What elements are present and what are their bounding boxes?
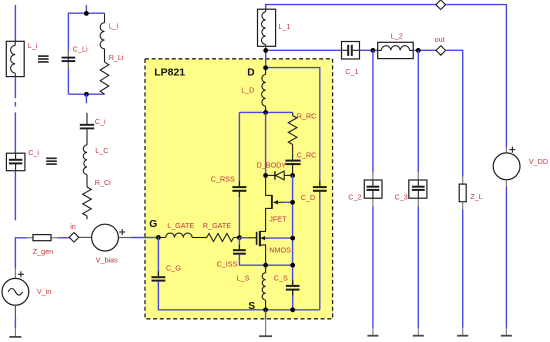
svg-text:L_1: L_1 [279, 22, 291, 31]
port out (diamond) [436, 46, 446, 56]
wire C_2 branch [372, 50, 374, 327]
svg-text:V_bias: V_bias [96, 256, 118, 265]
svg-text:C_3: C_3 [395, 192, 408, 201]
wire below V_DD [505, 187, 507, 328]
capacitor C_G [152, 271, 166, 286]
inductor L_D [262, 68, 266, 113]
wire out to Z_L column [446, 50, 463, 176]
wire C_RSS branch [238, 112, 240, 237]
inductor L_S [262, 265, 265, 310]
node internal drain [263, 110, 268, 115]
svg-text:V_DD: V_DD [529, 157, 548, 166]
node C_3 tap [416, 48, 421, 53]
port in (diamond) [69, 233, 79, 243]
wire top rail [266, 5, 507, 147]
wire C_ISS branch upper [238, 238, 240, 250]
wire stub below L_i equivalent [85, 94, 87, 103]
wire NMOS bulk to gate column [268, 237, 293, 239]
resistor R_Ci [83, 175, 92, 220]
svg-text:C_D: C_D [301, 193, 315, 202]
ground below V_in [14, 328, 16, 337]
svg-text:JFET: JFET [269, 215, 287, 224]
wire input column top [14, 5, 16, 41]
resistor Z_L [459, 184, 466, 202]
svg-text:L_2: L_2 [391, 32, 403, 41]
port on top rail (diamond) [436, 0, 446, 10]
inductor L_C [83, 145, 87, 175]
wire drain middle segment [265, 112, 267, 175]
wire L_2 to port out [413, 49, 436, 51]
capacitor C_2 (boxed) [364, 180, 382, 198]
inductor L_i equivalent [100, 13, 104, 49]
node C_S top [290, 263, 295, 268]
svg-text:D: D [247, 68, 254, 79]
wire V_in to ground [14, 317, 16, 328]
resistor R_Li [100, 49, 109, 94]
node C_2 tap [371, 48, 376, 53]
capacitor C_1 (boxed) [342, 42, 360, 60]
capacitor C_Li [62, 51, 76, 69]
wire output row L_1 to C_1 [266, 49, 342, 51]
node source S [263, 307, 268, 312]
svg-text:R_RC: R_RC [297, 112, 317, 121]
node diode anode side [290, 173, 295, 178]
wire C_G branch lower to source rail [158, 281, 319, 309]
capacitor C_i (boxed equivalent component) [6, 153, 25, 171]
svg-text:in: in [70, 222, 76, 231]
wire NMOS gate lead [248, 237, 256, 239]
svg-text:L_GATE: L_GATE [167, 221, 194, 230]
wire source stub through border [265, 310, 267, 320]
ground below C_3 [417, 328, 419, 336]
wire C_3 leads [417, 172, 419, 207]
svg-text:NMOS: NMOS [269, 245, 291, 254]
ground below C_2 [372, 328, 374, 336]
wire gate column (right vertical) [292, 176, 294, 310]
node bottom of L_i equivalent [84, 92, 89, 97]
svg-text:Z_gen: Z_gen [33, 247, 53, 256]
svg-text:LP821: LP821 [154, 67, 185, 79]
inductor L_i (boxed equivalent component) [6, 41, 24, 76]
capacitor C_i equivalent [80, 113, 94, 145]
svg-text:L_D: L_D [241, 86, 254, 95]
node source internal [263, 263, 268, 268]
svg-text:C_RSS: C_RSS [211, 174, 235, 183]
wire L_i equivalent loop (top, left, bottom sides) [68, 13, 104, 94]
node JFET gate [290, 200, 295, 205]
svg-text:L_i: L_i [28, 41, 38, 50]
svg-text:L_i: L_i [109, 22, 119, 31]
svg-text:R_Ci: R_Ci [95, 178, 111, 187]
wire drain D to C_D branch [266, 68, 320, 186]
inductor L_GATE [158, 233, 192, 237]
wire V_bias to gate node G [118, 237, 131, 239]
inductor L_2 (boxed) [378, 42, 414, 58]
transistor NMOS [257, 220, 268, 264]
svg-text:out: out [435, 35, 445, 44]
wire gate to NMOS gate bar [239, 237, 248, 239]
wire C_D branch lower [319, 192, 321, 310]
capacitor C_3 (boxed) [409, 180, 427, 198]
svg-text:G: G [149, 219, 157, 230]
ground below V_DD [505, 328, 507, 336]
wire port in to V_bias [79, 236, 92, 238]
node diode cathode side [263, 173, 268, 178]
capacitor C_RC [285, 153, 300, 176]
svg-text:C_i: C_i [95, 117, 106, 126]
wire Z_L column lower [462, 210, 464, 328]
capacitor C_D [313, 181, 327, 197]
inductor L_1 (boxed) [258, 9, 276, 46]
equivalence symbol for C_i [46, 158, 57, 164]
node top of L_i equivalent [84, 11, 89, 16]
svg-text:C_RC: C_RC [297, 151, 317, 160]
ground below S [265, 320, 267, 337]
equivalence symbol for L_i [38, 56, 49, 62]
node gate G [156, 235, 161, 240]
svg-text:Z_L: Z_L [470, 192, 482, 201]
wire internal drain row [239, 111, 292, 113]
diode D_BODY [266, 171, 293, 180]
node NMOS bulk tap [290, 236, 295, 241]
node C_S bottom [290, 307, 295, 312]
voltage source V_DD [493, 147, 520, 187]
wire Z_L upper lead [462, 177, 464, 185]
transistor JFET [266, 176, 293, 221]
wire C_2 leads [372, 172, 374, 207]
wire C_G branch upper [157, 238, 159, 277]
capacitor C_S [286, 280, 300, 295]
svg-text:C_Li: C_Li [73, 45, 88, 54]
resistor Z_gen [27, 235, 58, 241]
node gate internal [237, 235, 242, 240]
wire below V_in [14, 305, 16, 317]
ground below Z_L [462, 328, 464, 336]
wire source row left corner [15, 238, 27, 269]
node drain D [263, 65, 268, 70]
wire stub above L_i equivalent [85, 5, 87, 14]
wire input column between L_i and C_i (broken) [14, 77, 16, 154]
svg-text:C_i: C_i [28, 148, 39, 157]
resistor R_RC [288, 112, 297, 152]
wire L_1 to drain D [265, 46, 267, 68]
wire Z_gen to port in [58, 237, 70, 239]
svg-text:C_G: C_G [166, 263, 181, 272]
wire input column below C_i [14, 171, 16, 221]
svg-text:V_in: V_in [37, 287, 51, 296]
svg-text:D_BODY: D_BODY [257, 160, 287, 169]
capacitor C_RSS [232, 181, 246, 197]
svg-text:C_2: C_2 [348, 192, 361, 201]
wire L_GATE to R_GATE [192, 237, 207, 239]
resistor R_GATE [207, 234, 240, 242]
wire C_ISS to source row [239, 255, 292, 266]
voltage source V_bias [92, 224, 126, 251]
wire C_1 to C_2 tap [360, 49, 378, 51]
capacitor C_ISS [233, 245, 246, 260]
wire Z_L lower [462, 202, 464, 210]
svg-text:C_S: C_S [274, 274, 288, 283]
wire C_3 branch [417, 50, 419, 327]
svg-text:R_GATE: R_GATE [203, 221, 231, 230]
node L_1 bottom [263, 48, 268, 53]
voltage source V_in [2, 269, 29, 306]
svg-text:L_S: L_S [237, 274, 250, 283]
LP821 model box [145, 59, 333, 319]
svg-text:L_C: L_C [95, 146, 108, 155]
wire V_bias lead to G [131, 237, 158, 239]
svg-text:R_Li: R_Li [109, 53, 124, 62]
svg-text:C_ISS: C_ISS [217, 259, 238, 268]
svg-text:C_1: C_1 [345, 67, 358, 76]
